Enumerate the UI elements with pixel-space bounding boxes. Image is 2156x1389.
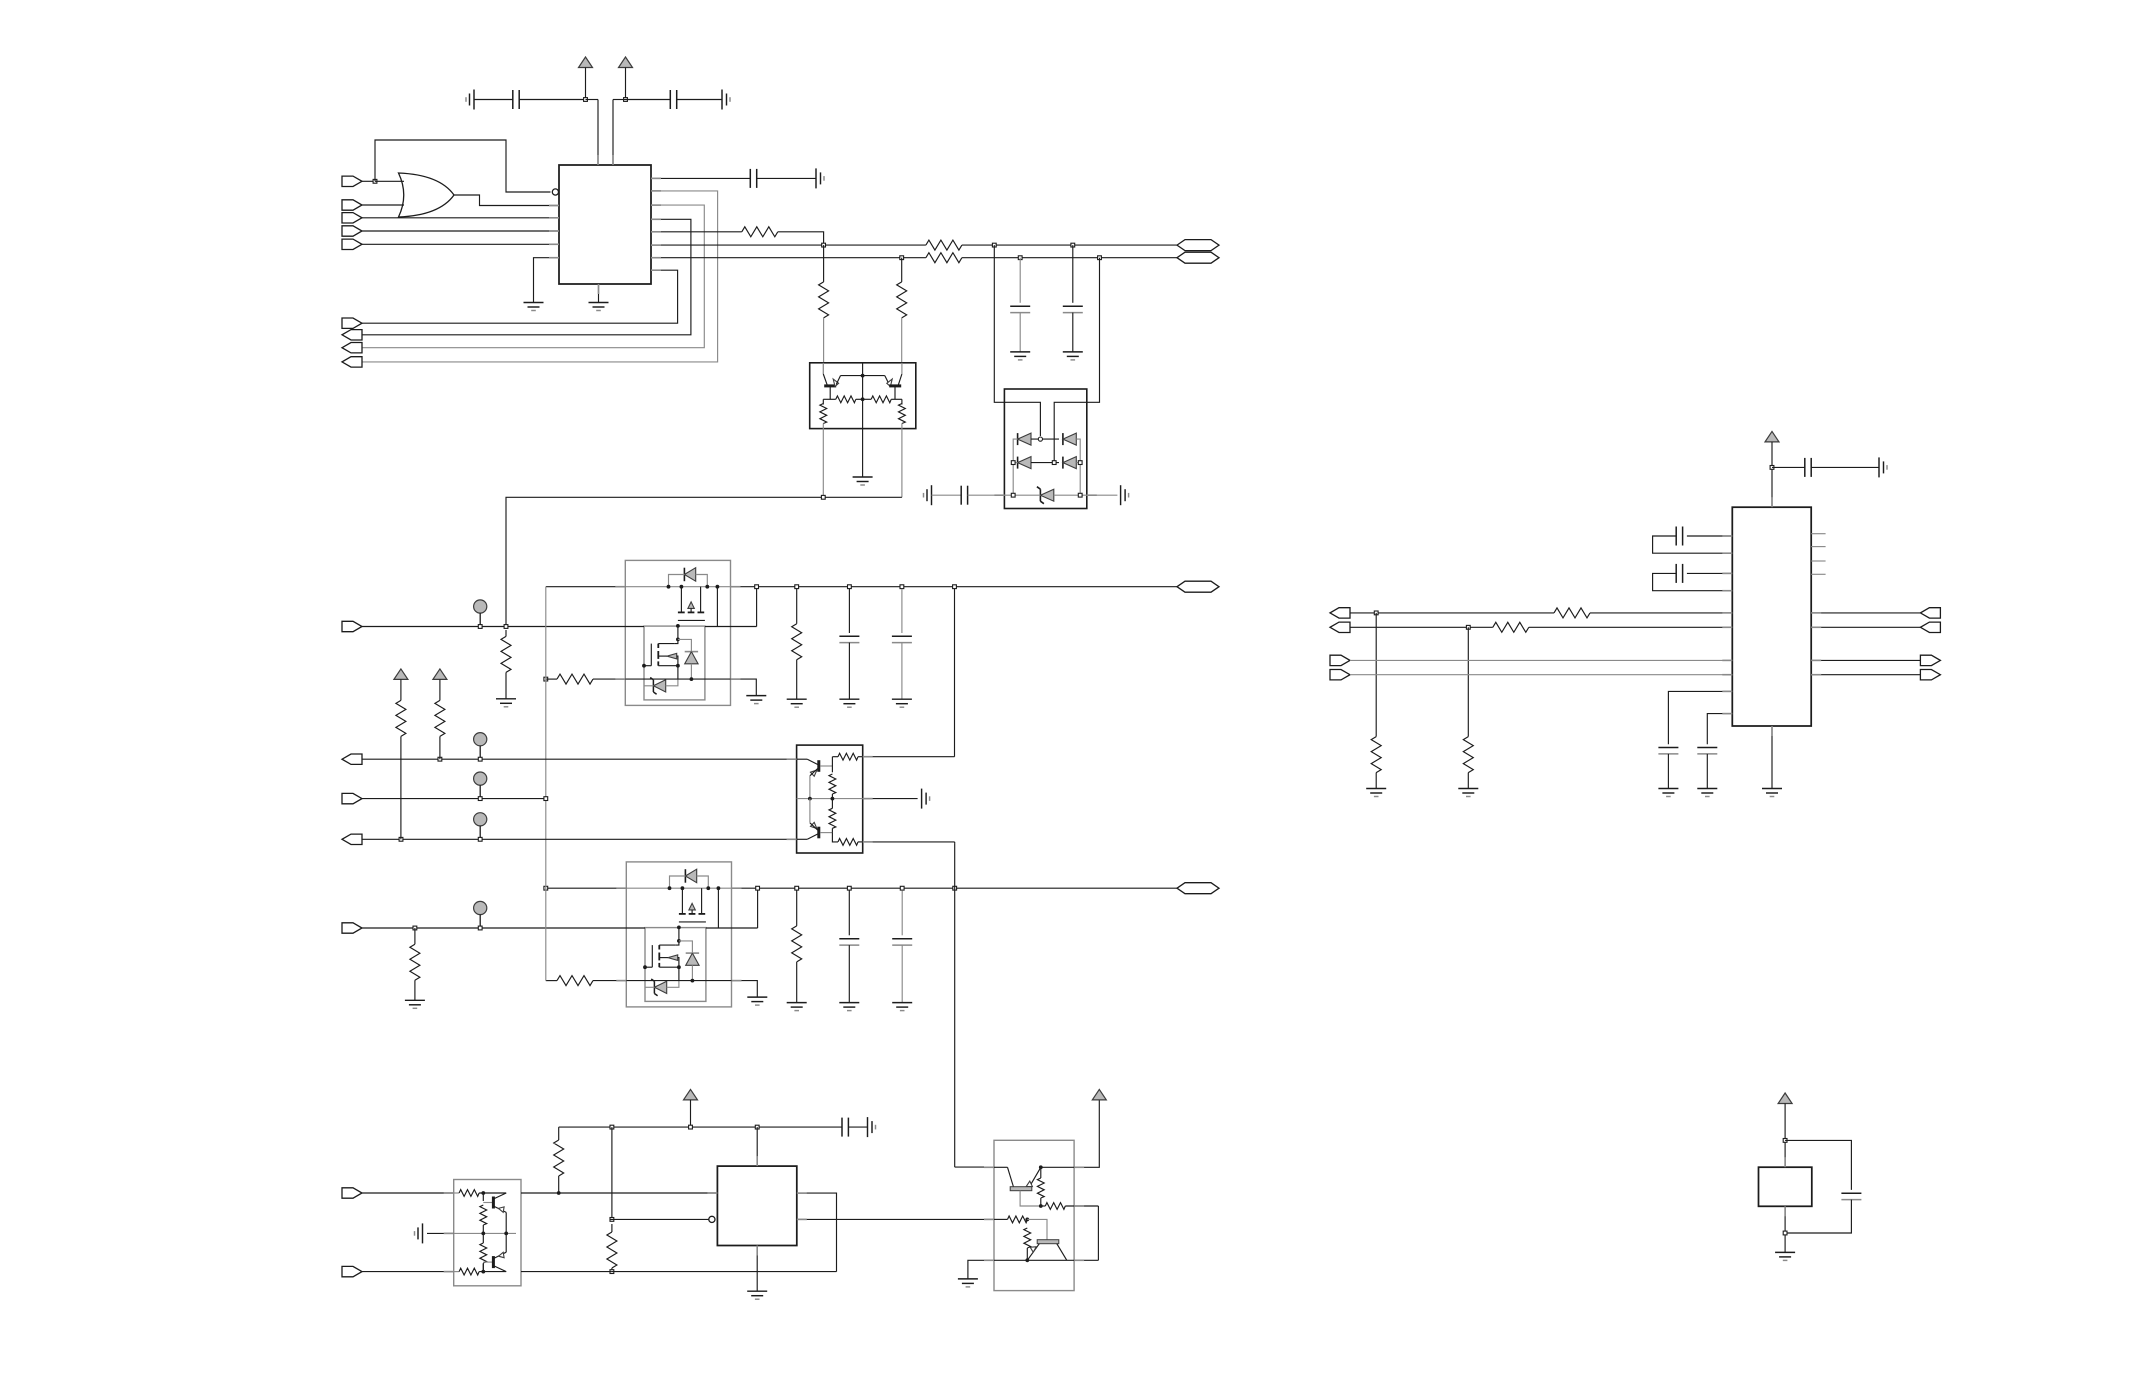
- ground G27: [1366, 789, 1386, 797]
- wire: [651, 231, 742, 233]
- ground G3: [524, 303, 544, 311]
- wire: [994, 245, 1040, 436]
- wire: [439, 736, 441, 759]
- wire: [1375, 613, 1377, 737]
- input port P19: [1330, 655, 1350, 665]
- wire: [659, 966, 679, 968]
- junction: [822, 243, 826, 247]
- wire (OR output): [454, 195, 559, 206]
- wire: [810, 823, 818, 830]
- ground G8 (rotated): [1121, 485, 1129, 505]
- wire: [891, 398, 902, 400]
- power symbol VCC5: [684, 1089, 698, 1100]
- output port P22: [1920, 622, 1940, 632]
- wire: [1026, 1248, 1028, 1260]
- ground G15: [787, 699, 807, 707]
- output port P21: [1920, 608, 1940, 618]
- body diode (low-side) U3: [685, 651, 698, 653]
- capacitor C11: [842, 1118, 848, 1137]
- ground G31: [1762, 789, 1782, 797]
- wire: [593, 678, 625, 680]
- wire (emitter rail): [841, 375, 885, 377]
- wire (base lead): [820, 765, 832, 767]
- ground G20: [892, 1003, 912, 1011]
- wire: [1467, 627, 1469, 736]
- wire (common rail): [454, 1232, 516, 1234]
- capacitor C7: [839, 635, 859, 637]
- wire: [962, 244, 1177, 246]
- wire: [1771, 726, 1773, 789]
- wire: [610, 1218, 709, 1220]
- wire (center): [862, 363, 864, 400]
- wire: [1772, 466, 1805, 468]
- wire (collector): [493, 1193, 506, 1199]
- wire (base lead): [820, 832, 832, 834]
- wire: [901, 258, 903, 282]
- resistor R3: [926, 253, 962, 263]
- ground G25: [958, 1279, 978, 1287]
- junction: [795, 886, 799, 890]
- wire: [1590, 612, 1732, 614]
- inner box (low-side FET) U3: [644, 626, 705, 700]
- capacitor C2: [670, 90, 676, 109]
- wire (source/ground row): [626, 980, 731, 982]
- wire: [375, 180, 404, 182]
- wire: [400, 679, 402, 700]
- wire (common rail): [797, 798, 863, 800]
- inner box (low-side FET) U4: [645, 928, 706, 1002]
- resistor R22: [554, 1140, 564, 1176]
- input port P16: [342, 1266, 362, 1276]
- ground G19: [839, 1003, 859, 1011]
- ground G17: [892, 699, 912, 707]
- wire: [885, 376, 889, 385]
- wire (VCC rail): [559, 1126, 842, 1128]
- input port P5: [342, 239, 362, 249]
- resistor R14: [792, 624, 802, 660]
- wire: [677, 99, 722, 101]
- N-MOSFET U3 (control): [650, 644, 652, 666]
- wire: [626, 99, 671, 101]
- wire: [679, 941, 693, 953]
- wire: [756, 1127, 758, 1166]
- input port P10: [342, 621, 362, 631]
- wire: [521, 1271, 612, 1273]
- resistor R8: [820, 404, 827, 424]
- resistor R35: [1463, 737, 1473, 773]
- wire: [482, 1193, 484, 1201]
- junction: [1770, 466, 1774, 470]
- resistor R9: [899, 404, 906, 424]
- pin stub: [1811, 573, 1825, 575]
- wire (XOUT): [362, 1271, 454, 1273]
- wire (VOUT2 line): [760, 887, 1177, 889]
- wire: [1040, 1198, 1042, 1206]
- wire: [1054, 494, 1087, 496]
- wire: [831, 799, 833, 809]
- wire: [659, 944, 676, 946]
- wire: [716, 587, 718, 627]
- wire: [1013, 462, 1017, 464]
- component box U4: [626, 862, 731, 1007]
- wire: [954, 842, 956, 844]
- wire: [658, 643, 675, 645]
- ground G18: [787, 1003, 807, 1011]
- wire (switch output row): [626, 887, 731, 889]
- wire: [1784, 1104, 1786, 1168]
- wire: [505, 1233, 507, 1252]
- capacitor C13: [1676, 527, 1682, 546]
- resistor R17: [435, 700, 445, 736]
- wire: [1687, 535, 1732, 537]
- wire: [1811, 466, 1879, 468]
- resistor R24: [459, 1190, 479, 1197]
- wire: [1027, 1259, 1074, 1261]
- wire: [691, 965, 693, 980]
- wire: [1811, 626, 1920, 628]
- ground G13: [747, 997, 767, 1005]
- wire: [832, 833, 838, 842]
- ground G2 (rotated): [722, 90, 730, 110]
- transistor pair block Q1: [810, 363, 916, 498]
- test point TP3: [474, 733, 487, 746]
- wire: [362, 243, 559, 245]
- wire: [856, 398, 871, 400]
- wire (emitter): [809, 776, 811, 799]
- junction: [413, 926, 417, 930]
- wire: [796, 660, 798, 700]
- junction: [544, 886, 548, 890]
- wire: [796, 890, 798, 926]
- input port P6: [342, 318, 362, 328]
- wire: [1031, 462, 1059, 464]
- capacitor C14: [1676, 564, 1682, 583]
- wire: [1667, 754, 1669, 789]
- base bar Q4B: [1037, 1240, 1059, 1244]
- wire: [901, 643, 903, 700]
- junction: [504, 625, 508, 629]
- ground G10: [1010, 352, 1030, 360]
- ground G21 (rotated): [922, 789, 930, 809]
- junction (switch node): [755, 585, 759, 589]
- junction: [1011, 493, 1015, 497]
- wire: [1076, 462, 1080, 464]
- junction: [438, 757, 442, 761]
- wire (emitter): [1030, 1167, 1041, 1186]
- junction: [848, 585, 852, 589]
- test point TP1: [474, 600, 487, 613]
- diode D1B: [1062, 433, 1064, 445]
- junction: [584, 98, 588, 102]
- body diode U3: [683, 568, 685, 582]
- ground G29: [1658, 789, 1678, 797]
- wire: [731, 586, 755, 588]
- wire: [823, 374, 827, 385]
- wire: [831, 828, 833, 832]
- capacitor C6: [1010, 305, 1030, 307]
- body diode U4: [684, 869, 686, 883]
- ground G12: [496, 699, 516, 707]
- junction: [900, 256, 904, 260]
- wire (emitter): [1027, 1244, 1039, 1261]
- wire: [586, 99, 599, 101]
- wire: [901, 945, 903, 1003]
- wire: [823, 318, 825, 363]
- junction: [373, 179, 377, 183]
- wire: [690, 1100, 692, 1127]
- wire: [1771, 442, 1773, 507]
- wire (collector lead): [822, 363, 824, 374]
- input port P24: [1920, 670, 1940, 680]
- ground G23 (rotated): [415, 1223, 423, 1243]
- input port P15: [342, 1188, 362, 1198]
- wire: [414, 980, 416, 1000]
- inverted pin bubble U1: [552, 189, 558, 195]
- wire (switch output row): [625, 586, 730, 588]
- wire: [1040, 1167, 1042, 1178]
- wire: [1019, 313, 1021, 352]
- junction: [1783, 1231, 1787, 1235]
- transistor Q1A base bar: [824, 384, 836, 387]
- off-page connector OP4: [1177, 883, 1219, 894]
- ground G30: [1697, 789, 1717, 797]
- component box D1: [1004, 389, 1086, 509]
- junction: [1466, 625, 1470, 629]
- power symbol VCC3: [394, 669, 408, 680]
- wire: [546, 586, 626, 588]
- wire: [796, 962, 798, 1003]
- wire: [1054, 258, 1099, 463]
- junction: [610, 1270, 614, 1274]
- gate plate: [679, 921, 706, 923]
- wire: [1785, 1200, 1851, 1233]
- wire: [521, 1192, 559, 1194]
- IC U7 (regulator): [1759, 1167, 1812, 1206]
- wire: [954, 589, 956, 757]
- wire (sense loop): [756, 589, 758, 627]
- junction: [1783, 1139, 1787, 1143]
- wire: [1013, 439, 1017, 495]
- wire: [1668, 691, 1732, 744]
- junction: [821, 495, 825, 499]
- capacitor C9: [839, 938, 859, 940]
- junction: [624, 98, 628, 102]
- wire: [414, 928, 416, 944]
- wire: [1784, 1206, 1786, 1252]
- digital transistor pair Q3: [454, 1180, 521, 1286]
- junction: [1011, 461, 1015, 465]
- resistor R2: [926, 240, 962, 250]
- junction: [478, 797, 482, 801]
- wire: [666, 679, 678, 686]
- ground G5 (rotated): [816, 168, 824, 188]
- wire: [1350, 659, 1732, 661]
- wire: [474, 99, 513, 101]
- wire: [1031, 438, 1059, 440]
- resistor R29: [1045, 1203, 1065, 1210]
- wire (gate lead): [645, 966, 652, 968]
- wire (base lead): [483, 1261, 492, 1263]
- TVS diode array D1: [994, 245, 1099, 508]
- junction: [544, 797, 548, 801]
- wire: [858, 756, 863, 758]
- wire (to level shifter): [954, 843, 956, 1167]
- capacitor C3: [750, 169, 756, 188]
- transistor Q1B base bar: [889, 384, 901, 387]
- N-MOSFET U4 (control): [651, 945, 653, 967]
- wire: [823, 398, 836, 400]
- wire: [1072, 313, 1074, 352]
- wire (VIN2): [362, 927, 645, 929]
- resistor R30: [1008, 1216, 1028, 1223]
- wire: [822, 399, 824, 404]
- wire: [732, 981, 758, 998]
- wire: [1019, 258, 1021, 303]
- wire: [479, 1271, 506, 1273]
- junction: [755, 1125, 759, 1129]
- bidir port P7: [342, 330, 362, 340]
- wire: [505, 672, 507, 698]
- wire: [611, 1268, 613, 1272]
- power symbol VCC4: [433, 669, 447, 680]
- bidir port P8: [342, 343, 362, 353]
- transistor Q1B emitter arrow: [887, 379, 892, 387]
- P-MOSFET U3 (pass transistor): [680, 587, 682, 613]
- junction: [478, 625, 482, 629]
- wire: [832, 756, 838, 758]
- output port P12: [342, 754, 362, 764]
- junction: [689, 1125, 693, 1129]
- wire: [848, 589, 850, 633]
- junction: [1078, 461, 1082, 465]
- test point TP4: [474, 772, 487, 785]
- wire: [810, 769, 818, 776]
- wire: [1072, 245, 1074, 303]
- junction: [847, 886, 851, 890]
- wire (base lead): [483, 1202, 492, 1204]
- wire: [519, 99, 585, 101]
- resistor R11: [557, 674, 593, 684]
- capacitor C17: [1841, 1192, 1861, 1194]
- wire (gate lead): [644, 665, 651, 667]
- capacitor: [1697, 747, 1717, 749]
- wire: [534, 258, 560, 303]
- wire: [968, 1260, 994, 1279]
- wire: [439, 679, 441, 700]
- wire: [836, 376, 840, 385]
- resistor R32: [1554, 608, 1590, 618]
- wire: [1687, 572, 1732, 574]
- junction: [953, 585, 957, 589]
- wire: [858, 841, 863, 843]
- resistor R15: [792, 926, 802, 962]
- ground G22 (rotated): [868, 1117, 876, 1137]
- wire: [678, 639, 692, 651]
- wire: [454, 1192, 459, 1194]
- wire: [848, 1126, 867, 1128]
- wire: [644, 685, 653, 687]
- wire (emitter): [493, 1252, 506, 1258]
- wire: [670, 876, 686, 888]
- wire: [400, 736, 402, 839]
- resistor R18: [829, 774, 836, 794]
- wire: [731, 679, 757, 696]
- junction: [610, 1125, 614, 1129]
- wire: [1074, 1100, 1099, 1167]
- wire: [1706, 754, 1708, 789]
- resistor R12: [410, 944, 420, 980]
- wire: [1041, 1166, 1074, 1168]
- wire: [1811, 674, 1920, 676]
- resistor R10: [501, 636, 511, 672]
- wire (collector): [493, 1266, 506, 1272]
- off-page connector OP2: [1177, 252, 1219, 263]
- wire (enable net): [545, 587, 547, 981]
- wire: [757, 177, 816, 179]
- wire: [362, 230, 559, 232]
- MOSFET load switch block U4: [626, 862, 731, 1007]
- ground G14: [405, 1000, 425, 1008]
- wire: [994, 1218, 1008, 1220]
- wire: [585, 68, 587, 100]
- wire: [901, 318, 903, 363]
- input port P3: [342, 213, 362, 223]
- junction: [900, 585, 904, 589]
- component box Q3: [454, 1180, 521, 1286]
- ground G16: [839, 699, 859, 707]
- wire: [705, 626, 757, 628]
- ground G9: [1063, 352, 1083, 360]
- capacitor C4: [961, 486, 967, 505]
- wire: [1076, 439, 1080, 495]
- ground G6: [853, 477, 873, 485]
- wire: [658, 665, 678, 667]
- component box Q2: [797, 745, 863, 853]
- wire: [645, 986, 654, 988]
- wire: [898, 374, 902, 385]
- ground G28: [1458, 789, 1478, 797]
- wire (collector): [797, 838, 808, 840]
- wire (feedback loop): [375, 140, 551, 192]
- wire: [611, 1224, 613, 1232]
- wire: [697, 876, 709, 888]
- wire: [1375, 773, 1377, 789]
- input port P1: [342, 176, 362, 186]
- junction: [1098, 256, 1102, 260]
- wire: [901, 589, 903, 633]
- resistor R28: [1037, 1178, 1044, 1198]
- junction: [795, 585, 799, 589]
- wire: [676, 927, 679, 945]
- wire (VIN1): [362, 626, 644, 628]
- wire: [598, 284, 600, 303]
- wire (emitter): [493, 1206, 506, 1212]
- wire (clock out): [797, 1218, 994, 1220]
- resistor R21: [838, 839, 858, 846]
- junction: [478, 926, 482, 930]
- junction: [992, 243, 996, 247]
- input port P13: [342, 793, 362, 803]
- zener diode U4: [651, 979, 657, 996]
- wire (net SCL): [651, 244, 926, 246]
- wire: [625, 68, 627, 100]
- resistor R1: [742, 227, 778, 237]
- wire (to port P7): [362, 219, 691, 334]
- junction: [610, 1218, 614, 1222]
- wire: [482, 1263, 484, 1272]
- wire: [1811, 612, 1920, 614]
- wire: [1097, 1206, 1099, 1260]
